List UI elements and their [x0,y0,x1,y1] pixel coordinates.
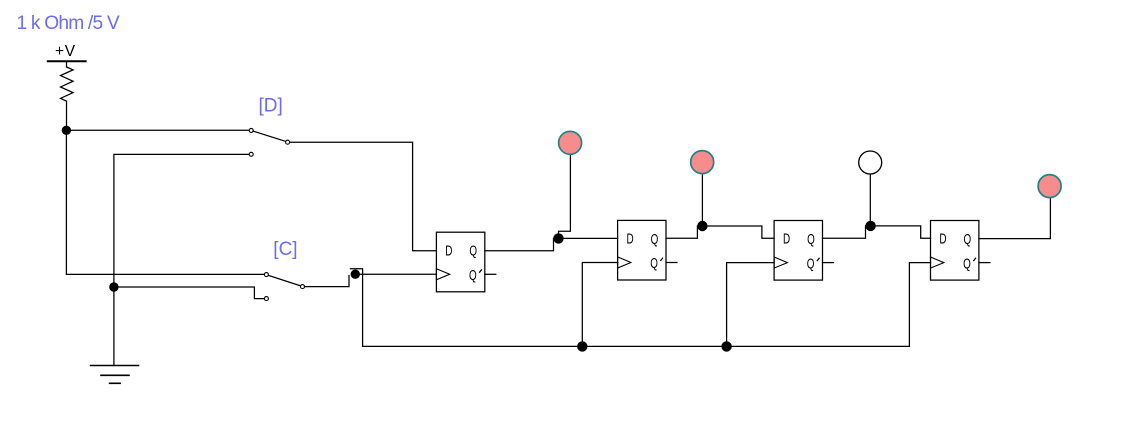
flip-flop U4 [931,221,990,281]
svg-text:D: D [939,231,946,248]
svg-text:Q: Q [963,255,971,272]
flip-flop U3 [774,221,833,281]
svg-text:[D]: [D] [259,96,283,117]
probe P3 (off) [859,151,882,174]
wire node B to switch C lower throw [114,287,265,299]
rail node R2 [721,341,731,351]
clock rail wire [363,345,910,347]
wire node A down to switch C upper throw [66,130,264,274]
svg-text:Q: Q [469,267,477,284]
svg-text:Q: Q [469,243,477,260]
svg-text:Q: Q [651,231,659,248]
resistor R1 (1 k Ohm) [61,67,74,101]
wire node C to U1 clock input [353,273,436,275]
ground symbol [90,366,140,384]
wire U4 Q output to probe P4 [979,198,1051,239]
rail node R1 [577,341,587,351]
svg-text:Q: Q [964,231,972,248]
switch SW-D [249,128,289,156]
wire switch D lower throw to ground node [114,154,249,287]
node Q2 [697,221,707,231]
svg-text:Q: Q [650,255,658,272]
wire U1 Q output to node Q1 [485,238,618,250]
svg-text:[C]: [C] [273,239,297,260]
node Q3 [865,221,875,231]
node C (clock junction) [351,270,360,279]
svg-text:Q: Q [807,255,815,272]
wire node Q2 to probe P2 [701,174,703,226]
node B (ground junction) [109,282,118,291]
flip-flop U2 [618,220,677,280]
wire node C jog down to clock rail [351,269,363,347]
svg-text:D: D [445,242,452,259]
wire node Q1 to probe P1 [559,155,571,239]
svg-text:+V: +V [55,43,76,60]
wire U2 clock to rail [582,263,617,347]
node A (resistor / switch feed junction) [62,126,71,135]
wire resistor to node A [66,101,68,130]
flip-flop U1 [436,232,495,292]
svg-text:Q: Q [807,231,815,248]
+V power symbol [47,43,87,67]
probe P1 (lit) [559,131,582,154]
probe P4 (lit) [1038,175,1061,198]
probe P2 (lit) [691,151,714,174]
wire U3 Q output to node Q3 [823,226,931,238]
wire node A to switch D upper throw [66,129,249,131]
wire switch D common to U1 D input [290,142,437,251]
switch SW-C [264,273,304,301]
node Q1 [553,233,563,243]
wire U4 clock to rail [909,263,930,347]
svg-text:D: D [627,231,634,248]
svg-text:D: D [783,231,790,248]
wire node B to ground [113,287,115,366]
wire U2 Q output to node Q2 [666,226,774,238]
wire node Q3 to probe P3 [869,174,871,226]
svg-text:1 k Ohm /5 V: 1 k Ohm /5 V [17,13,120,34]
wire switch C common to clock node C [305,276,350,287]
wire U3 clock to rail [727,263,775,347]
